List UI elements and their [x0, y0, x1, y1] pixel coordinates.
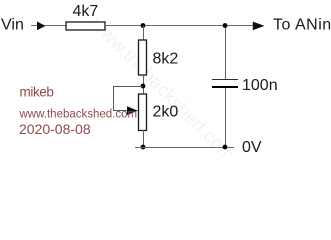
- wire top rail from R1 to output arrow: [105, 25, 254, 27]
- wire node A down to R2: [143, 26, 145, 41]
- junction VR1 on 0V rail: [141, 145, 146, 150]
- arrow to ANin: [253, 22, 265, 31]
- wire Vin input segment: [31, 25, 66, 27]
- wire VR1 bottom to 0V rail: [143, 130, 145, 147]
- svg-text:www.thebackshed.com: www.thebackshed.com: [86, 13, 239, 156]
- svg-text:www.thebackshed.com: www.thebackshed.com: [19, 109, 138, 121]
- junction node A to C1 branch: [223, 23, 228, 28]
- wire wiper feedback path: [114, 87, 144, 111]
- svg-text:0V: 0V: [242, 139, 262, 156]
- svg-text:8k2: 8k2: [153, 51, 179, 68]
- svg-text:2k0: 2k0: [153, 104, 179, 121]
- signal flow arrow from Vin: [37, 22, 46, 31]
- capacitor C1 top plate: [212, 79, 238, 81]
- wire R2 bottom to node B: [143, 75, 145, 94]
- svg-text:To ANin: To ANin: [273, 17, 331, 34]
- svg-text:2020-08-08: 2020-08-08: [19, 121, 91, 137]
- resistor R1 4k7 (horizontal body): [66, 22, 105, 30]
- potentiometer VR1 2k0 (vertical body): [139, 94, 147, 131]
- junction node A (top of 8k2): [141, 23, 146, 28]
- wiper arrow into VR1: [127, 106, 138, 115]
- resistor R2 8k2 (vertical body): [139, 40, 147, 75]
- wire 0V rail: [135, 147, 234, 149]
- svg-text:100n: 100n: [242, 77, 278, 94]
- svg-text:Vin: Vin: [1, 17, 24, 34]
- capacitor C1 bottom plate: [212, 86, 238, 88]
- svg-text:4k7: 4k7: [73, 3, 99, 20]
- svg-text:mikeb: mikeb: [20, 85, 54, 100]
- junction C1 on 0V rail: [223, 145, 228, 150]
- wire C1 bottom to 0V rail: [225, 88, 227, 147]
- wire top rail down to C1: [225, 26, 227, 80]
- junction node B (wiper tap): [141, 84, 146, 89]
